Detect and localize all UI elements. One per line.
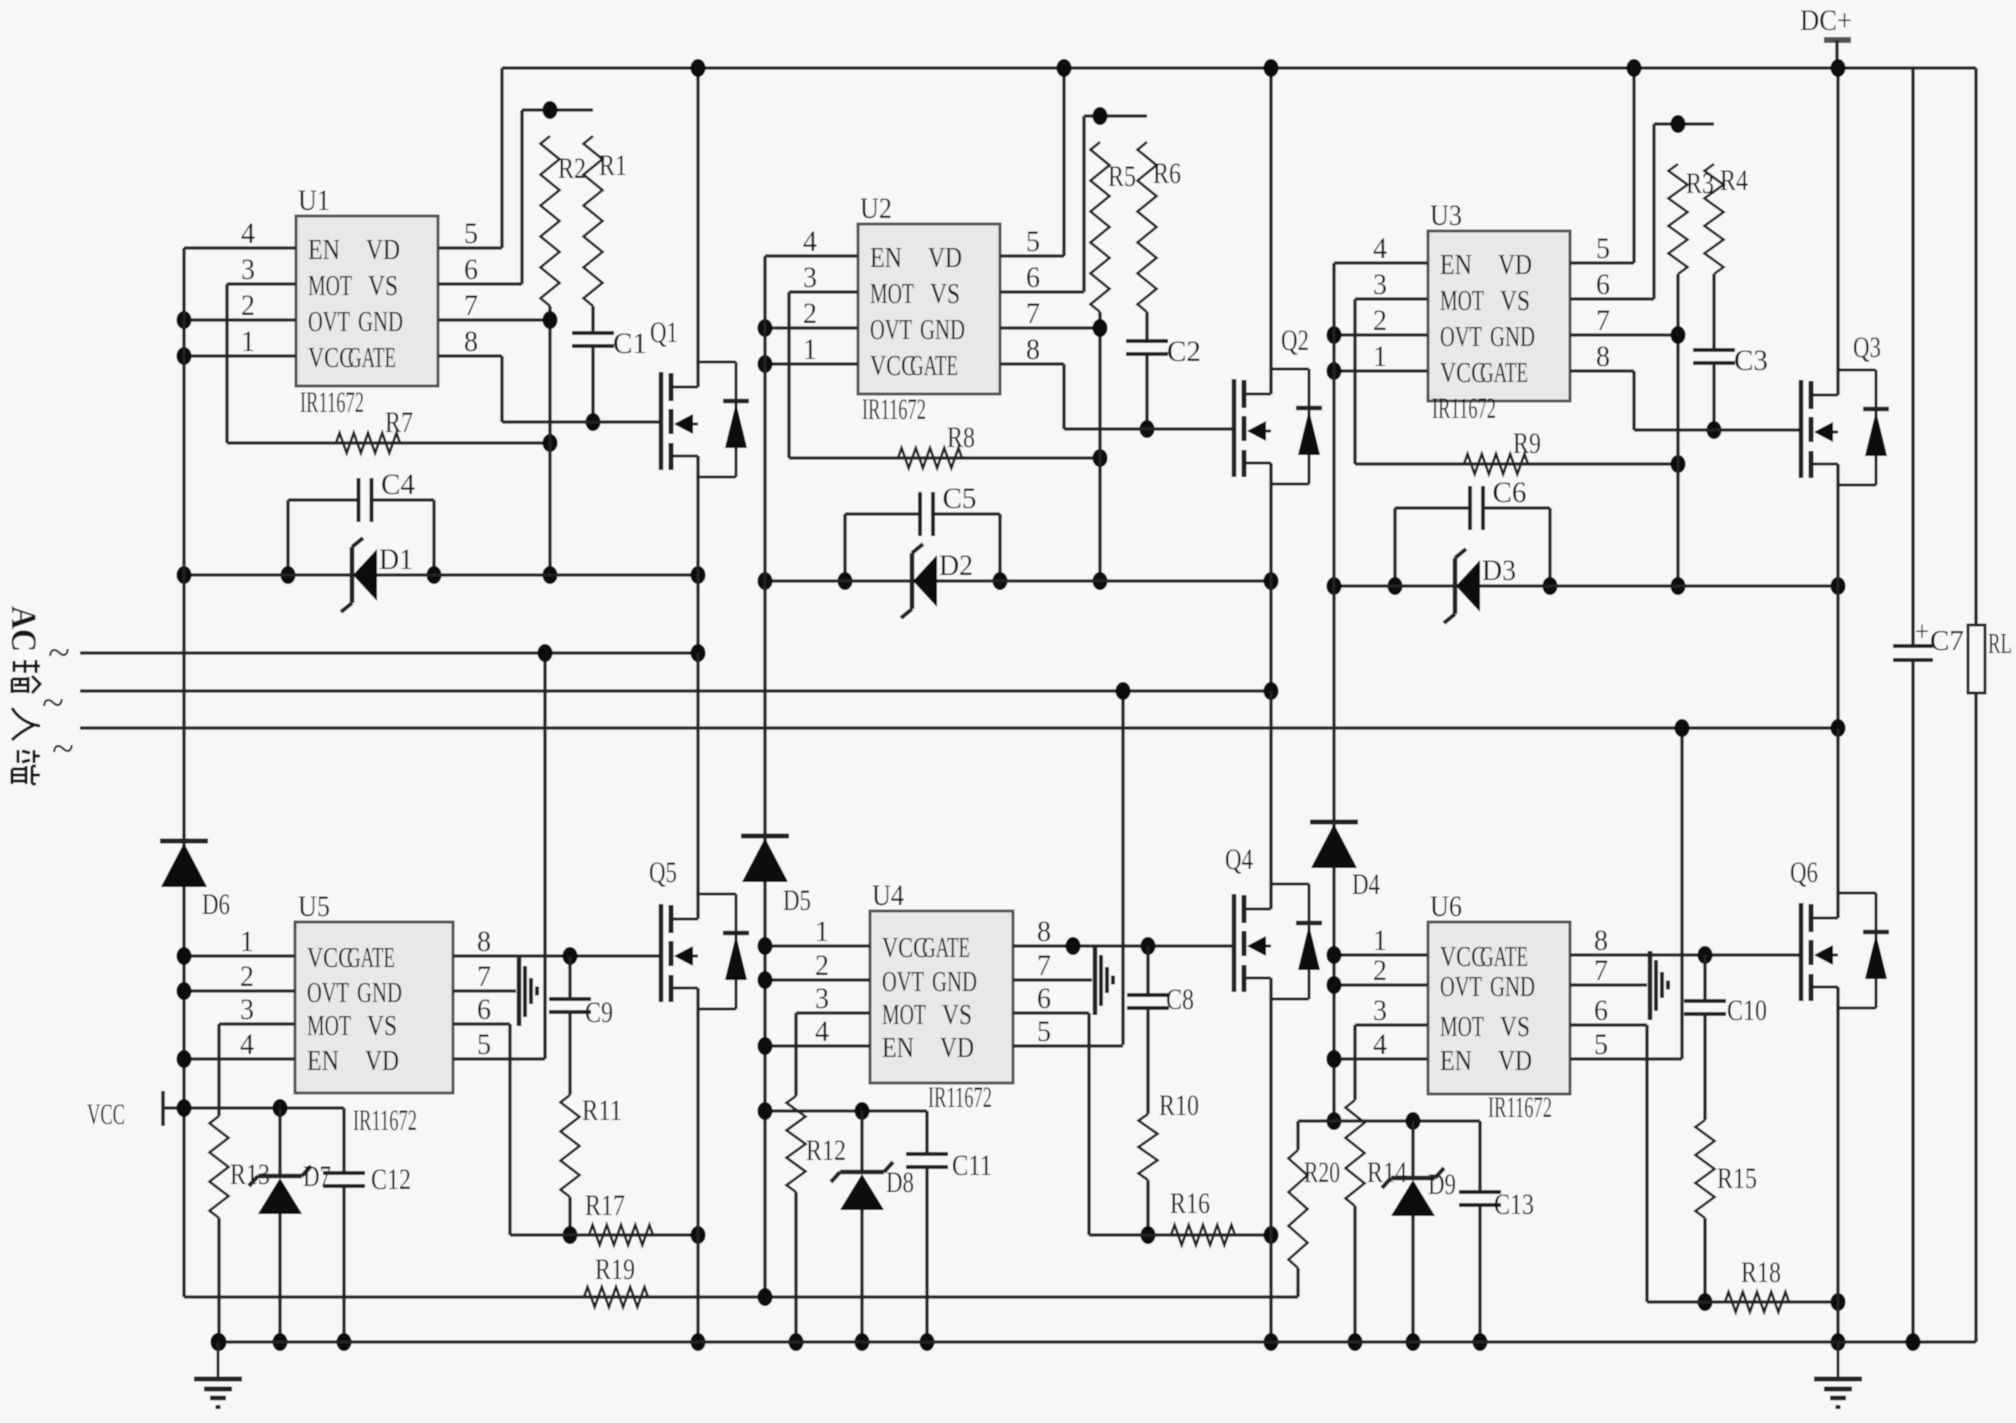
svg-text:OVT: OVT — [307, 978, 349, 1009]
svg-text:R4: R4 — [1720, 164, 1748, 197]
svg-text:OVT: OVT — [1440, 972, 1482, 1003]
svg-text:GND: GND — [1490, 972, 1535, 1003]
svg-text:U1: U1 — [298, 184, 330, 217]
svg-text:EN: EN — [1440, 250, 1472, 281]
svg-text:6: 6 — [477, 993, 491, 1026]
svg-text:U2: U2 — [860, 192, 892, 225]
svg-text:IR11672: IR11672 — [862, 393, 926, 426]
svg-text:R15: R15 — [1717, 1162, 1757, 1195]
svg-text:3: 3 — [1373, 994, 1387, 1027]
svg-text:C7: C7 — [1930, 626, 1964, 657]
svg-text:R11: R11 — [582, 1094, 622, 1127]
svg-text:EN: EN — [1440, 1046, 1472, 1077]
svg-text:3: 3 — [815, 982, 829, 1015]
svg-text:VCC: VCC — [87, 1098, 125, 1131]
svg-text:D7: D7 — [303, 1160, 331, 1193]
svg-text:Q4: Q4 — [1225, 843, 1253, 876]
svg-text:C4: C4 — [381, 468, 415, 501]
svg-text:Q3: Q3 — [1853, 331, 1881, 364]
svg-text:3: 3 — [240, 993, 254, 1026]
svg-text:GATE: GATE — [910, 351, 958, 382]
svg-text:3: 3 — [803, 261, 817, 294]
svg-text:EN: EN — [870, 243, 902, 274]
svg-text:4: 4 — [815, 1015, 829, 1048]
svg-text:C8: C8 — [1166, 983, 1194, 1016]
svg-text:2: 2 — [815, 949, 829, 982]
svg-text:MOT: MOT — [870, 279, 914, 310]
svg-text:D2: D2 — [939, 549, 973, 582]
svg-text:VS: VS — [1500, 1012, 1530, 1043]
svg-text:EN: EN — [307, 1046, 339, 1077]
svg-text:D6: D6 — [202, 888, 230, 921]
svg-text:C10: C10 — [1727, 994, 1767, 1027]
svg-text:MOT: MOT — [308, 271, 352, 302]
svg-text:4: 4 — [240, 1028, 254, 1061]
svg-text:OVT: OVT — [308, 307, 350, 338]
svg-text:5: 5 — [477, 1028, 491, 1061]
svg-text:GND: GND — [357, 978, 402, 1009]
svg-text:C9: C9 — [585, 996, 613, 1029]
svg-text:2: 2 — [1373, 954, 1387, 987]
svg-text:C1: C1 — [613, 327, 647, 360]
svg-text:RL: RL — [1988, 629, 2012, 660]
svg-text:IR11672: IR11672 — [353, 1104, 417, 1137]
svg-text:2: 2 — [1373, 304, 1387, 337]
svg-text:3: 3 — [241, 253, 255, 286]
svg-text:AC: AC — [4, 606, 44, 652]
svg-text:VS: VS — [930, 279, 960, 310]
svg-text:EN: EN — [882, 1033, 914, 1064]
svg-text:7: 7 — [477, 960, 491, 993]
svg-text:VS: VS — [367, 1011, 397, 1042]
svg-text:VD: VD — [940, 1033, 974, 1064]
svg-text:VD: VD — [1498, 1046, 1532, 1077]
svg-text:R6: R6 — [1153, 157, 1181, 190]
svg-text:IR11672: IR11672 — [1488, 1091, 1552, 1124]
svg-text:C2: C2 — [1167, 335, 1201, 368]
svg-text:GATE: GATE — [1480, 942, 1528, 973]
svg-text:GATE: GATE — [348, 343, 396, 374]
svg-text:R18: R18 — [1741, 1256, 1781, 1289]
svg-text:VS: VS — [368, 271, 398, 302]
svg-text:GND: GND — [358, 307, 403, 338]
svg-text:8: 8 — [1594, 924, 1608, 957]
svg-text:6: 6 — [464, 253, 478, 286]
svg-text:C3: C3 — [1734, 344, 1768, 377]
svg-text:+: + — [1915, 617, 1929, 648]
svg-text:VS: VS — [942, 1000, 972, 1031]
svg-text:6: 6 — [1594, 994, 1608, 1027]
svg-text:~: ~ — [42, 680, 64, 725]
svg-text:D9: D9 — [1428, 1168, 1456, 1201]
svg-text:C13: C13 — [1494, 1188, 1534, 1221]
svg-text:8: 8 — [1596, 340, 1610, 373]
svg-text:R20: R20 — [1304, 1156, 1340, 1189]
svg-text:Q1: Q1 — [650, 316, 678, 349]
svg-text:D8: D8 — [886, 1166, 914, 1199]
svg-text:GATE: GATE — [922, 933, 970, 964]
svg-text:IR11672: IR11672 — [300, 386, 364, 419]
svg-text:6: 6 — [1037, 982, 1051, 1015]
svg-text:OVT: OVT — [1440, 322, 1482, 353]
svg-text:R8: R8 — [947, 421, 975, 454]
svg-text:MOT: MOT — [882, 1000, 926, 1031]
svg-text:4: 4 — [803, 225, 817, 258]
svg-text:2: 2 — [241, 289, 255, 322]
svg-text:6: 6 — [1026, 261, 1040, 294]
svg-text:VD: VD — [928, 243, 962, 274]
svg-text:2: 2 — [240, 960, 254, 993]
svg-text:R7: R7 — [385, 406, 413, 439]
svg-text:8: 8 — [1037, 915, 1051, 948]
svg-text:R9: R9 — [1513, 427, 1541, 460]
svg-text:5: 5 — [1037, 1015, 1051, 1048]
svg-text:C5: C5 — [943, 482, 977, 515]
svg-text:R1: R1 — [599, 149, 627, 182]
svg-text:4: 4 — [1373, 232, 1387, 265]
svg-text:R10: R10 — [1159, 1089, 1199, 1122]
svg-text:1: 1 — [1373, 340, 1387, 373]
svg-text:GND: GND — [932, 967, 977, 998]
svg-text:C6: C6 — [1493, 476, 1527, 509]
svg-text:MOT: MOT — [1440, 1012, 1484, 1043]
svg-text:MOT: MOT — [1440, 286, 1484, 317]
svg-text:1: 1 — [803, 333, 817, 366]
svg-text:6: 6 — [1596, 268, 1610, 301]
svg-text:3: 3 — [1373, 268, 1387, 301]
svg-text:8: 8 — [464, 325, 478, 358]
svg-text:D3: D3 — [1482, 554, 1516, 587]
svg-text:D1: D1 — [379, 543, 413, 576]
svg-text:1: 1 — [815, 915, 829, 948]
svg-text:EN: EN — [308, 235, 340, 266]
svg-text:7: 7 — [1026, 297, 1040, 330]
svg-text:U6: U6 — [1430, 890, 1462, 923]
svg-text:8: 8 — [477, 925, 491, 958]
svg-text:IR11672: IR11672 — [928, 1081, 992, 1114]
svg-text:Q6: Q6 — [1790, 856, 1818, 889]
svg-text:U3: U3 — [1430, 199, 1462, 232]
svg-text:7: 7 — [1596, 304, 1610, 337]
svg-text:~: ~ — [52, 726, 74, 771]
svg-text:OVT: OVT — [870, 315, 912, 346]
svg-text:5: 5 — [1026, 225, 1040, 258]
svg-text:5: 5 — [1594, 1028, 1608, 1061]
svg-text:D4: D4 — [1352, 868, 1380, 901]
svg-text:5: 5 — [464, 217, 478, 250]
svg-text:1: 1 — [1373, 924, 1387, 957]
svg-text:OVT: OVT — [882, 967, 924, 998]
svg-text:MOT: MOT — [307, 1011, 351, 1042]
svg-text:7: 7 — [464, 289, 478, 322]
svg-text:R19: R19 — [595, 1253, 635, 1286]
svg-text:GND: GND — [1490, 322, 1535, 353]
svg-text:4: 4 — [241, 217, 255, 250]
svg-text:2: 2 — [803, 297, 817, 330]
svg-text:~: ~ — [48, 630, 70, 675]
svg-text:8: 8 — [1026, 333, 1040, 366]
svg-text:1: 1 — [241, 325, 255, 358]
svg-text:C11: C11 — [952, 1149, 992, 1182]
svg-text:1: 1 — [240, 925, 254, 958]
svg-text:GATE: GATE — [1480, 358, 1528, 389]
svg-text:R12: R12 — [806, 1134, 846, 1167]
svg-text:R2: R2 — [558, 152, 586, 185]
svg-text:R5: R5 — [1108, 160, 1136, 193]
svg-text:D5: D5 — [783, 884, 811, 917]
svg-text:7: 7 — [1037, 949, 1051, 982]
svg-text:VD: VD — [366, 235, 400, 266]
svg-text:GATE: GATE — [347, 943, 395, 974]
svg-text:7: 7 — [1594, 954, 1608, 987]
svg-text:R17: R17 — [585, 1189, 625, 1222]
svg-text:R16: R16 — [1170, 1187, 1210, 1220]
svg-text:VD: VD — [1498, 250, 1532, 281]
svg-text:4: 4 — [1373, 1028, 1387, 1061]
svg-text:VD: VD — [365, 1046, 399, 1077]
svg-text:DC+: DC+ — [1800, 4, 1852, 37]
svg-text:U5: U5 — [298, 890, 330, 923]
svg-text:IR11672: IR11672 — [1432, 392, 1496, 425]
svg-text:U4: U4 — [872, 879, 904, 912]
svg-text:Q2: Q2 — [1281, 324, 1309, 357]
svg-text:5: 5 — [1596, 232, 1610, 265]
svg-text:C12: C12 — [371, 1163, 411, 1196]
svg-text:GND: GND — [920, 315, 965, 346]
svg-text:Q5: Q5 — [649, 856, 677, 889]
svg-text:VS: VS — [1500, 286, 1530, 317]
svg-text:R3: R3 — [1686, 167, 1714, 200]
